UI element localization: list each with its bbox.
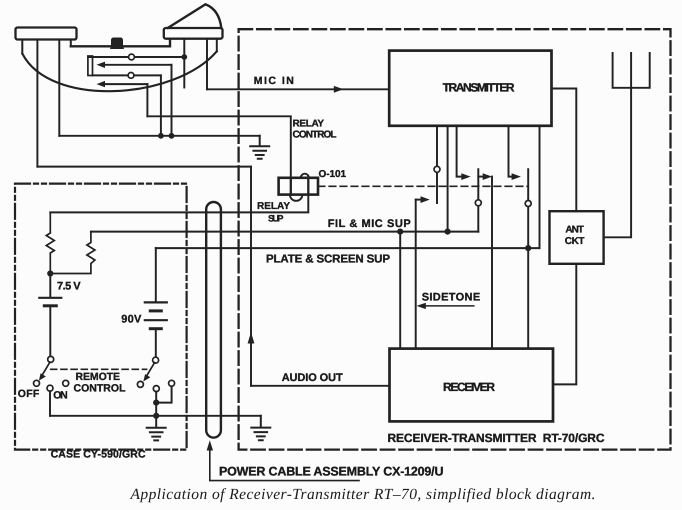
wire ant ckt to receiver <box>553 264 576 385</box>
junction dot mic <box>181 54 187 60</box>
wire mic-in lead <box>206 39 208 90</box>
svg-text:Application of Receiver-Transm: Application of Receiver-Transmitter RT–7… <box>130 486 596 503</box>
handset switch contact circle 2 <box>128 73 134 79</box>
wire earpiece ground lead <box>58 40 60 136</box>
svg-text:ANT: ANT <box>565 225 584 236</box>
handset left body sides <box>22 40 71 54</box>
switch S2 blade <box>146 363 154 377</box>
svg-text:AUDIO OUT: AUDIO OUT <box>282 372 343 384</box>
sidetone arrow line <box>424 305 474 307</box>
wire switch B down <box>160 75 162 135</box>
svg-text:CONTROL: CONTROL <box>293 129 337 140</box>
ground symbol RT box <box>251 416 270 440</box>
handset switch linkage bar <box>88 56 93 76</box>
wire ON contact down <box>49 391 51 416</box>
wire arrow2 down to relay control <box>146 84 148 116</box>
junction dot fil b <box>397 229 403 235</box>
relay O-101 right divider <box>307 178 309 195</box>
svg-text:O-101: O-101 <box>319 169 347 180</box>
svg-text:CKT: CKT <box>565 236 585 247</box>
wire arc stub <box>216 39 218 52</box>
contact v6 with arrow <box>509 126 513 177</box>
svg-text:FIL & MIC SUP: FIL & MIC SUP <box>328 218 411 230</box>
wire mic junction vertical <box>183 39 185 88</box>
switch S1 remote stub contact <box>63 380 69 386</box>
wire audio feed horizontal <box>37 166 251 168</box>
handset right earpiece dome <box>168 4 221 28</box>
battery BT2 90V <box>155 248 157 302</box>
push-to-talk button <box>110 38 124 50</box>
handset handle arc <box>22 51 217 91</box>
svg-text:RELAY: RELAY <box>293 118 325 129</box>
wire fil and mic sup line <box>91 231 478 233</box>
wire earpiece audio lead <box>36 40 38 167</box>
RT-70 dashed enclosure <box>239 29 671 449</box>
contact arrow v4 to v5 <box>478 176 482 178</box>
ground symbol mic <box>250 136 269 159</box>
junction dot plate line <box>525 245 531 251</box>
contact v4 fixed with circle <box>477 169 479 231</box>
wire plate and screen sup line <box>156 247 540 249</box>
switch S2 pivot <box>153 357 159 363</box>
wire fil line to receiver <box>399 232 401 349</box>
handset switch wire A <box>88 56 184 58</box>
resistor R2 <box>50 232 95 274</box>
contact v7 fixed with circle <box>527 169 529 348</box>
battery BT1 7.5V <box>49 274 51 298</box>
ant ckt box <box>550 211 604 264</box>
wire S2 right contact loop <box>156 386 171 402</box>
wire relay sup line <box>50 195 308 213</box>
relay dashed mechanical link <box>318 185 528 187</box>
resistor R1 <box>46 212 54 273</box>
cable label leader <box>210 448 359 481</box>
svg-text:90V: 90V <box>121 313 142 325</box>
power cable capsule <box>206 202 221 438</box>
svg-text:TRANSMITTER: TRANSMITTER <box>443 81 515 95</box>
svg-text:ON: ON <box>53 389 67 401</box>
wire v2 transmitter to fil line <box>447 126 449 232</box>
arrow audio up <box>248 332 255 344</box>
arrow mic in <box>334 86 344 93</box>
contact v1 from transmitter <box>436 126 438 203</box>
svg-text:RECEIVER-TRANSMITTER RT-70/GR: RECEIVER-TRANSMITTER RT-70/GRC <box>388 431 605 445</box>
wire v8 transmitter to plate line <box>539 126 541 248</box>
svg-text:PLATE & SCREEN SUP: PLATE & SCREEN SUP <box>266 253 390 265</box>
contact v3 with arrow <box>457 126 462 177</box>
junction dot ground line 1 <box>158 133 164 139</box>
wire case bottom ground line <box>50 415 261 417</box>
svg-text:SUP: SUP <box>268 214 284 224</box>
wire handset ground line <box>59 135 259 137</box>
ground symbol case <box>147 428 166 441</box>
svg-text:RECEIVER: RECEIVER <box>443 380 495 394</box>
ganged switch dashed link <box>51 368 147 370</box>
transmitter box <box>389 51 551 126</box>
relay O-101 body <box>279 178 318 195</box>
switch S2 middle contact <box>153 386 159 392</box>
handset switch arrow contact 1 <box>105 64 172 66</box>
antenna <box>604 53 650 237</box>
wire audio feed vertical <box>250 167 252 386</box>
relay O-101 top bump <box>301 174 309 178</box>
handset left earpiece cap <box>16 28 77 40</box>
svg-text:RELAY: RELAY <box>257 201 290 212</box>
wire v5 to receiver <box>491 177 493 349</box>
svg-text:OFF: OFF <box>18 388 40 400</box>
wire v9 to receiver <box>415 200 417 349</box>
svg-text:SIDETONE: SIDETONE <box>422 291 481 303</box>
handset switch wire B <box>93 74 161 76</box>
wire transmitter to ant ckt <box>552 89 577 212</box>
junction dot S2 b <box>153 413 159 419</box>
case CY-590 dash-dot enclosure <box>15 184 187 450</box>
push-to-talk wire <box>71 39 170 47</box>
receiver box <box>390 349 554 422</box>
junction dot fil a <box>445 229 451 235</box>
handset switch arrow contact 2 <box>105 83 148 85</box>
svg-text:CONTROL: CONTROL <box>74 382 127 394</box>
junction dot resistors <box>47 270 53 276</box>
switch S1 pivot <box>48 356 54 362</box>
switch S1 OFF contact <box>34 380 40 386</box>
svg-text:7.5 V: 7.5 V <box>57 280 81 292</box>
wire arrow1 down <box>171 65 173 136</box>
handset switch contact circle 1 <box>129 54 135 60</box>
wire mic in <box>207 88 389 90</box>
junction dot S2 a <box>153 400 159 406</box>
contact arrow to v1 <box>416 199 422 201</box>
svg-text:CASE CY-590/GRC: CASE CY-590/GRC <box>51 449 146 461</box>
relay O-101 left divider <box>290 178 292 195</box>
handset right earpiece cap <box>164 28 223 39</box>
relay O-101 bottom bump <box>290 195 303 201</box>
switch S1 blade <box>42 362 50 376</box>
wire relay control <box>147 116 290 178</box>
svg-text:MIC IN: MIC IN <box>254 75 294 87</box>
junction dot ground line 2 <box>169 133 175 139</box>
svg-text:POWER CABLE ASSEMBLY CX-1209/U: POWER CABLE ASSEMBLY CX-1209/U <box>219 465 444 479</box>
wire S2 middle contact down <box>155 392 157 428</box>
switch S2 right contact <box>169 380 175 386</box>
wire audio out <box>251 385 390 387</box>
switch S1 ON contact <box>47 385 53 391</box>
switch S2 left contact <box>137 381 143 387</box>
